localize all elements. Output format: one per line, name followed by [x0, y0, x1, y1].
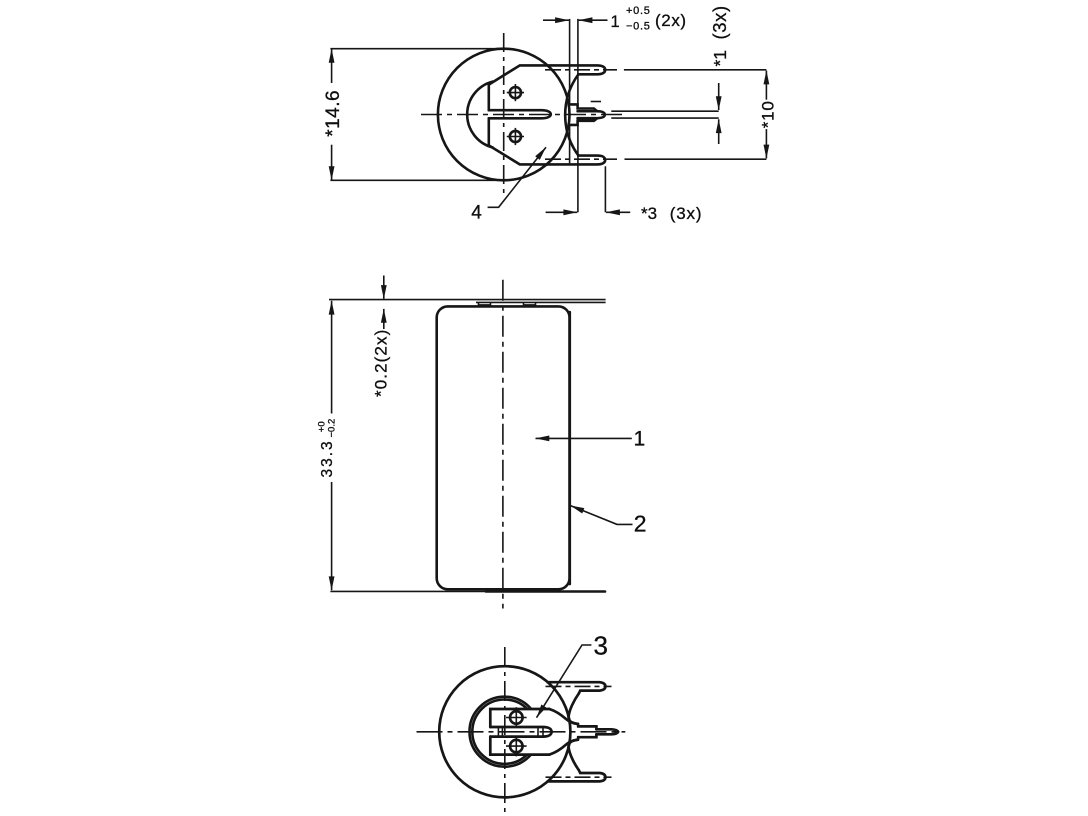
rivet crosshair upper (bottom view): [506, 707, 527, 728]
rivet crosshair lower (bottom view): [506, 736, 527, 757]
pin3 dash-dot centerline: [545, 158, 617, 160]
dimension 1 +0.5/-0.5 (2x) extension line A (cell edge): [569, 19, 571, 104]
dimension *14.6 dimension line with arrows: [331, 49, 333, 83]
negative terminal double circle inner: [472, 700, 536, 764]
middle pin 2 crown fold steps (lower): [570, 119, 597, 125]
dimension text *10 (rotated): [759, 100, 778, 128]
plate to fishtail curve lower: [549, 740, 578, 755]
svg-text:33.3: 33.3: [319, 439, 336, 477]
dimension line *3 with arrows at bottom: [546, 211, 578, 213]
bottom tag plate (thick part): [486, 590, 605, 593]
horizontal centerline (bottom view): [417, 731, 626, 733]
dimension text 33.3 +0/-0.2 (rotated): [317, 419, 338, 478]
cell body outline (front view rounded rectangle): [437, 306, 570, 589]
label 1 leader with arrow: [536, 437, 632, 439]
pin 3 (lower pin, bottom view): [548, 770, 606, 781]
svg-text:−0.2: −0.2: [327, 419, 338, 438]
pin 3 fold neck curve: [569, 740, 579, 770]
hidden edge short dash above middle pin: [591, 101, 601, 103]
cell outline circle (top view): [438, 49, 570, 181]
top tag plate lower surface: [476, 301, 606, 303]
dimension *14.6 extension line top: [330, 48, 504, 50]
plate hides terminal circles: [489, 708, 551, 756]
cell outline circle (bottom view): [439, 666, 570, 797]
tag plate outline (bottom view): [490, 709, 549, 755]
rivet crosshair upper (top view): [507, 84, 524, 101]
negative terminal double circle outer: [470, 697, 540, 767]
label 3 leader with arrow: [537, 645, 592, 718]
dimension *10 extension line from pin1: [624, 69, 767, 71]
dimension 1 +0.5/-0.5 (2x) extension line B (fold edge): [577, 19, 579, 104]
dimension *1 arrows (vertical at x=718.7): [718, 83, 720, 110]
svg-text:(3x): (3x): [709, 5, 730, 39]
dimension *10 dimension line with arrows: [765, 71, 767, 100]
dimension 33.3 dimension line with arrows: [331, 301, 333, 414]
svg-text:*14.6: *14.6: [323, 90, 344, 137]
fishtail steps lower (bottom view): [578, 734, 597, 739]
svg-text:*1: *1: [710, 50, 730, 67]
middle pin 2 crown fold steps (upper): [570, 104, 597, 110]
middle pin slot in plate (rounded end): [489, 110, 551, 118]
weld projection bumps (2x): [479, 302, 491, 305]
rivet crimp ticks pair 1: [497, 726, 499, 737]
svg-text:2: 2: [634, 511, 647, 537]
pin 3 (lower pin, top view): [548, 156, 606, 165]
svg-text:(3x): (3x): [670, 204, 702, 223]
dimension text *1 (3x) (rotated): [709, 5, 730, 66]
dimension line 1(2x) with arrows at top: [543, 19, 569, 21]
vertical centerline (bottom view): [504, 647, 506, 813]
svg-text:3: 3: [594, 631, 608, 661]
label 4 leader with arrow: [488, 147, 546, 207]
dimension *14.6 extension line bottom: [330, 179, 504, 181]
solder tag plate outline (top view): [489, 65, 548, 164]
vertical centerline (top view): [503, 33, 505, 197]
svg-text:(2x): (2x): [655, 11, 687, 30]
middle pin 2 (top view): [578, 111, 605, 118]
dimension *10 extension line from pin3: [625, 158, 767, 160]
pin 1 (upper pin, bottom view): [548, 682, 606, 693]
svg-text:+0.5: +0.5: [626, 5, 651, 17]
label 2 leader with arrow: [571, 506, 633, 525]
dimension text *0.2(2x) (rotated): [372, 329, 391, 397]
plate to fishtail curve upper: [549, 709, 578, 724]
vertical centerline (front view): [502, 280, 504, 609]
dimension *0.2 (2x) arrows: [383, 276, 385, 299]
svg-text:1: 1: [611, 13, 620, 31]
svg-text:4: 4: [471, 203, 482, 224]
middle pin 2 (bottom view): [596, 729, 618, 734]
svg-text:*3: *3: [641, 204, 657, 223]
dimension *3 (3x) extension line at pin tips: [604, 166, 606, 212]
svg-text:1: 1: [634, 428, 646, 451]
fishtail steps upper (bottom view): [578, 724, 597, 729]
middle pin slot (bottom view): [490, 727, 551, 737]
pin 1 (upper pin, top view): [548, 65, 606, 74]
dimension text *14.6 (rotated): [323, 90, 344, 137]
pin1 dash-dot centerline (bottom view): [546, 685, 612, 687]
svg-text:*0.2(2x): *0.2(2x): [372, 329, 391, 397]
pin1 dash-dot centerline: [545, 69, 617, 71]
rivet crosshair lower (top view): [507, 128, 524, 145]
svg-text:*10: *10: [759, 100, 778, 128]
top tag plate edge line (front view): [329, 299, 606, 301]
pin thickness extension lines (middle pin): [611, 110, 718, 112]
pin 1 fold neck curve: [569, 694, 579, 724]
insulation sleeve edge (thicker right side): [568, 312, 571, 584]
tag rim fold arc (C-arc): [467, 82, 492, 148]
svg-text:−0.5: −0.5: [626, 21, 651, 33]
pin3 dash-dot centerline (bottom view): [546, 776, 612, 778]
rivet crimp ticks pair 2: [537, 726, 539, 737]
horizontal centerline (top view): [421, 114, 624, 116]
bent tab fold arc between pin1 and pin3: [565, 75, 578, 156]
bottom tag plate edge line (front view): [330, 590, 486, 592]
